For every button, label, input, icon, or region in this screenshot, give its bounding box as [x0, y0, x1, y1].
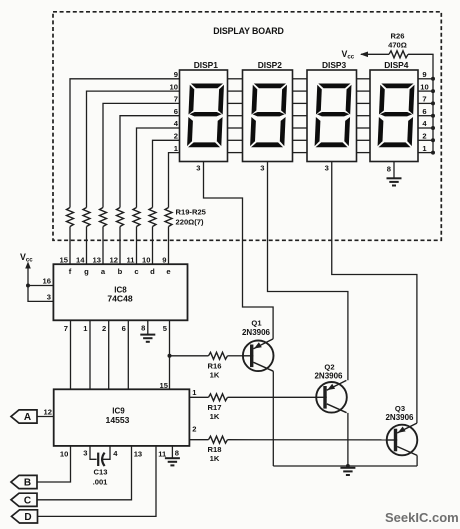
ground below rail	[340, 468, 355, 475]
op IC9 14553 three-digit BCD counter	[54, 389, 190, 446]
svg-text:3: 3	[83, 449, 87, 458]
svg-text:10: 10	[170, 82, 178, 91]
svg-text:A: A	[24, 412, 31, 423]
svg-text:1K: 1K	[210, 370, 220, 379]
node junction DISP4 pin 2 on Vcc bus	[431, 138, 435, 142]
wire DISP3 pin 3 to Q3 emitter	[332, 162, 417, 424]
wire Vcc bus right side	[432, 54, 434, 153]
svg-text:1K: 1K	[210, 412, 220, 421]
svg-text:10: 10	[420, 82, 428, 91]
wire IC8 pin 7 to IC9	[70, 320, 72, 389]
wire input A to IC9 pin 12	[37, 416, 54, 418]
svg-text:3: 3	[325, 164, 329, 173]
display DISP3	[307, 70, 357, 162]
wire R17 to Q2 base	[228, 396, 317, 398]
resistor R24 220 ohm	[149, 208, 156, 227]
display board dashed enclosure	[53, 12, 441, 241]
node input B tag	[11, 475, 37, 488]
wire segment bus row 4 (IC8 pin 11 to DISP1 pin 4)	[136, 227, 138, 265]
svg-text:9: 9	[162, 256, 166, 265]
wire IC9 pin 10 to input B	[37, 446, 71, 482]
node input A tag	[11, 410, 37, 423]
ground below DISP4	[387, 178, 402, 185]
resistor R19 220 ohm	[67, 208, 74, 227]
node junction DISP4 pin 4 on Vcc bus	[431, 126, 435, 130]
svg-text:16: 16	[43, 277, 51, 286]
svg-text:R18: R18	[208, 445, 222, 454]
svg-text:10: 10	[60, 449, 68, 458]
svg-text:7: 7	[64, 324, 68, 333]
wire IC9 pin 8 to ground	[171, 446, 173, 458]
svg-text:DISP4: DISP4	[384, 60, 409, 70]
svg-text:DISP1: DISP1	[194, 60, 219, 70]
wire Q2 collector to common rail	[347, 413, 349, 466]
svg-text:8: 8	[387, 165, 391, 174]
node junction DISP4 pin 9 on Vcc bus	[431, 77, 435, 81]
svg-text:6: 6	[422, 107, 426, 116]
svg-text:13: 13	[134, 450, 142, 459]
wire R18 to Q3 base	[228, 439, 387, 441]
wire row 6 between displays	[228, 115, 243, 117]
wire Q1 collector to common rail	[272, 371, 274, 466]
node input C tag	[11, 493, 37, 506]
svg-text:8: 8	[175, 449, 179, 458]
svg-text:3: 3	[196, 164, 200, 173]
resistor R16 1K	[209, 352, 228, 359]
svg-text:7: 7	[174, 95, 178, 104]
svg-text:b: b	[118, 267, 123, 276]
svg-text:13: 13	[93, 256, 101, 265]
wire IC9 pin 1 to R17	[189, 396, 208, 398]
svg-text:.001: .001	[93, 477, 109, 486]
svg-text:74C48: 74C48	[107, 294, 133, 304]
wire row 9 between displays	[228, 78, 243, 80]
svg-text:2N3906: 2N3906	[314, 372, 343, 381]
transistor Q3 2N3906	[387, 423, 418, 455]
wire segment bus row 6 (IC8 pin 12 to DISP1 pin 6)	[119, 227, 121, 265]
wire IC9 pin 11 to input D	[38, 446, 157, 517]
svg-text:d: d	[150, 267, 155, 276]
svg-text:e: e	[166, 267, 170, 276]
svg-text:R19-R25: R19-R25	[176, 208, 207, 217]
op IC8 74C48 BCD to seven-segment decoder	[53, 264, 187, 320]
svg-text:Q1: Q1	[251, 319, 262, 328]
node rail ground junction	[346, 464, 350, 468]
wire IC8 pin 1 to IC9	[89, 320, 91, 389]
svg-text:7: 7	[422, 95, 426, 104]
svg-text:8: 8	[141, 323, 145, 332]
display DISP2	[243, 70, 293, 162]
transistor Q2 2N3906	[316, 380, 347, 412]
wire row 1 between displays	[228, 152, 243, 154]
resistor R17 1K	[209, 394, 228, 401]
Vcc arrow (display board supply)	[360, 52, 368, 58]
svg-text:6: 6	[122, 324, 126, 333]
wire Vcc feed through R26	[361, 53, 389, 55]
wire IC8 pin 8 to ground	[147, 320, 149, 334]
node junction DISP4 pin 10 on Vcc bus	[431, 89, 435, 93]
svg-text:12: 12	[44, 407, 52, 416]
wire segment bus row 2 (IC8 pin 10 to DISP1 pin 2)	[152, 227, 154, 265]
wire DISP1 pin 3 to Q1 emitter	[204, 162, 274, 339]
resistor R21 220 ohm	[100, 208, 107, 227]
node junction DISP4 pin 6 on Vcc bus	[431, 114, 435, 118]
svg-text:6: 6	[174, 107, 178, 116]
svg-text:15: 15	[60, 256, 69, 265]
svg-text:C: C	[24, 495, 31, 506]
resistor R20 220 ohm	[83, 208, 90, 227]
svg-text:1K: 1K	[210, 454, 220, 463]
svg-text:14553: 14553	[106, 415, 130, 425]
wire R16 to Q1 base	[228, 355, 244, 357]
wire row 10 between displays	[228, 90, 243, 92]
wire IC8 pin 6 to IC9	[127, 320, 129, 389]
svg-text:B: B	[24, 478, 31, 489]
transistor Q1 2N3906	[243, 339, 274, 371]
svg-text:DISPLAY BOARD: DISPLAY BOARD	[213, 26, 284, 36]
resistor R18 1K	[209, 436, 228, 443]
svg-text:9: 9	[174, 70, 178, 79]
node input D tag	[12, 510, 38, 523]
svg-text:DISP2: DISP2	[258, 60, 283, 70]
svg-text:c: c	[134, 267, 138, 276]
wire IC9 pin 3 to C13	[90, 446, 97, 459]
svg-text:12: 12	[110, 256, 118, 265]
node junction DISP4 pin 1 on Vcc bus	[431, 151, 435, 155]
wire DISP2 pin 3 to Q2 emitter	[268, 162, 348, 381]
svg-text:2N3906: 2N3906	[242, 328, 271, 337]
node IC8 pin5 / R16 junction	[168, 354, 172, 358]
resistor R22 220 ohm	[117, 208, 124, 227]
wire IC9 pin 13 to input C	[37, 446, 132, 500]
svg-text:220Ω(7): 220Ω(7)	[176, 218, 205, 227]
wire row 2 between displays	[228, 139, 243, 141]
svg-text:470Ω: 470Ω	[388, 41, 407, 50]
svg-text:2: 2	[174, 132, 178, 141]
svg-text:2: 2	[422, 132, 426, 141]
node junction DISP4 pin 7 on Vcc bus	[431, 101, 435, 105]
svg-text:3: 3	[260, 164, 264, 173]
ground below IC8 pin 8	[140, 335, 155, 342]
svg-text:g: g	[84, 267, 89, 276]
ground below IC9 pin 8	[165, 458, 180, 465]
svg-text:Q2: Q2	[324, 362, 334, 371]
svg-text:10: 10	[142, 256, 150, 265]
wire row 4 between displays	[228, 127, 243, 129]
svg-text:2: 2	[192, 425, 196, 434]
wire junction to R16	[170, 355, 209, 357]
svg-text:R26: R26	[391, 32, 405, 41]
svg-text:SeekIC.com: SeekIC.com	[385, 510, 459, 525]
wire segment bus row 1 (IC8 pin 9 to DISP1 pin 1)	[168, 227, 170, 265]
svg-text:R16: R16	[208, 361, 222, 370]
capacitor C13 .001	[97, 453, 99, 466]
wire IC8 pin 2 to IC9	[108, 320, 110, 389]
wire IC9 pin 4 to C13	[102, 446, 110, 459]
svg-text:D: D	[24, 512, 31, 523]
wire segment bus row 9 (IC8 pin 15 to DISP1 pin 9)	[69, 227, 71, 265]
wire segment bus row 7 (IC8 pin 13 to DISP1 pin 7)	[102, 227, 104, 265]
svg-text:9: 9	[422, 70, 426, 79]
wire common digit-driver rail	[273, 465, 417, 467]
wire IC9 pin 2 to R18	[189, 439, 208, 441]
Vcc arrow symbol	[25, 262, 31, 269]
svg-text:DISP3: DISP3	[322, 60, 347, 70]
resistor R25 220 ohm	[165, 208, 172, 227]
svg-text:Q3: Q3	[395, 404, 405, 413]
wire DISP4 pin 8 to ground	[393, 162, 395, 179]
display DISP4	[370, 70, 418, 162]
wire row 7 between displays	[228, 102, 243, 104]
svg-text:11: 11	[126, 256, 135, 265]
wire Vcc to IC8 pins 16 and 3	[28, 267, 53, 301]
svg-text:IC9: IC9	[112, 406, 125, 415]
svg-text:3: 3	[47, 293, 51, 302]
node Vcc junction	[26, 284, 30, 288]
display DISP1	[180, 70, 228, 162]
resistor R26 470 ohm	[389, 51, 408, 58]
svg-text:C13: C13	[94, 467, 108, 476]
svg-text:14: 14	[76, 256, 85, 265]
wire IC8 pin 5 to IC9 pin 15	[169, 320, 171, 389]
wire Q3 collector to common rail	[416, 455, 418, 466]
resistor R23 220 ohm	[133, 208, 140, 227]
svg-text:2: 2	[102, 324, 106, 333]
svg-text:R17: R17	[208, 403, 222, 412]
svg-text:2N3906: 2N3906	[385, 413, 414, 422]
wire segment bus row 10 (IC8 pin 14 to DISP1 pin 10)	[86, 227, 88, 265]
